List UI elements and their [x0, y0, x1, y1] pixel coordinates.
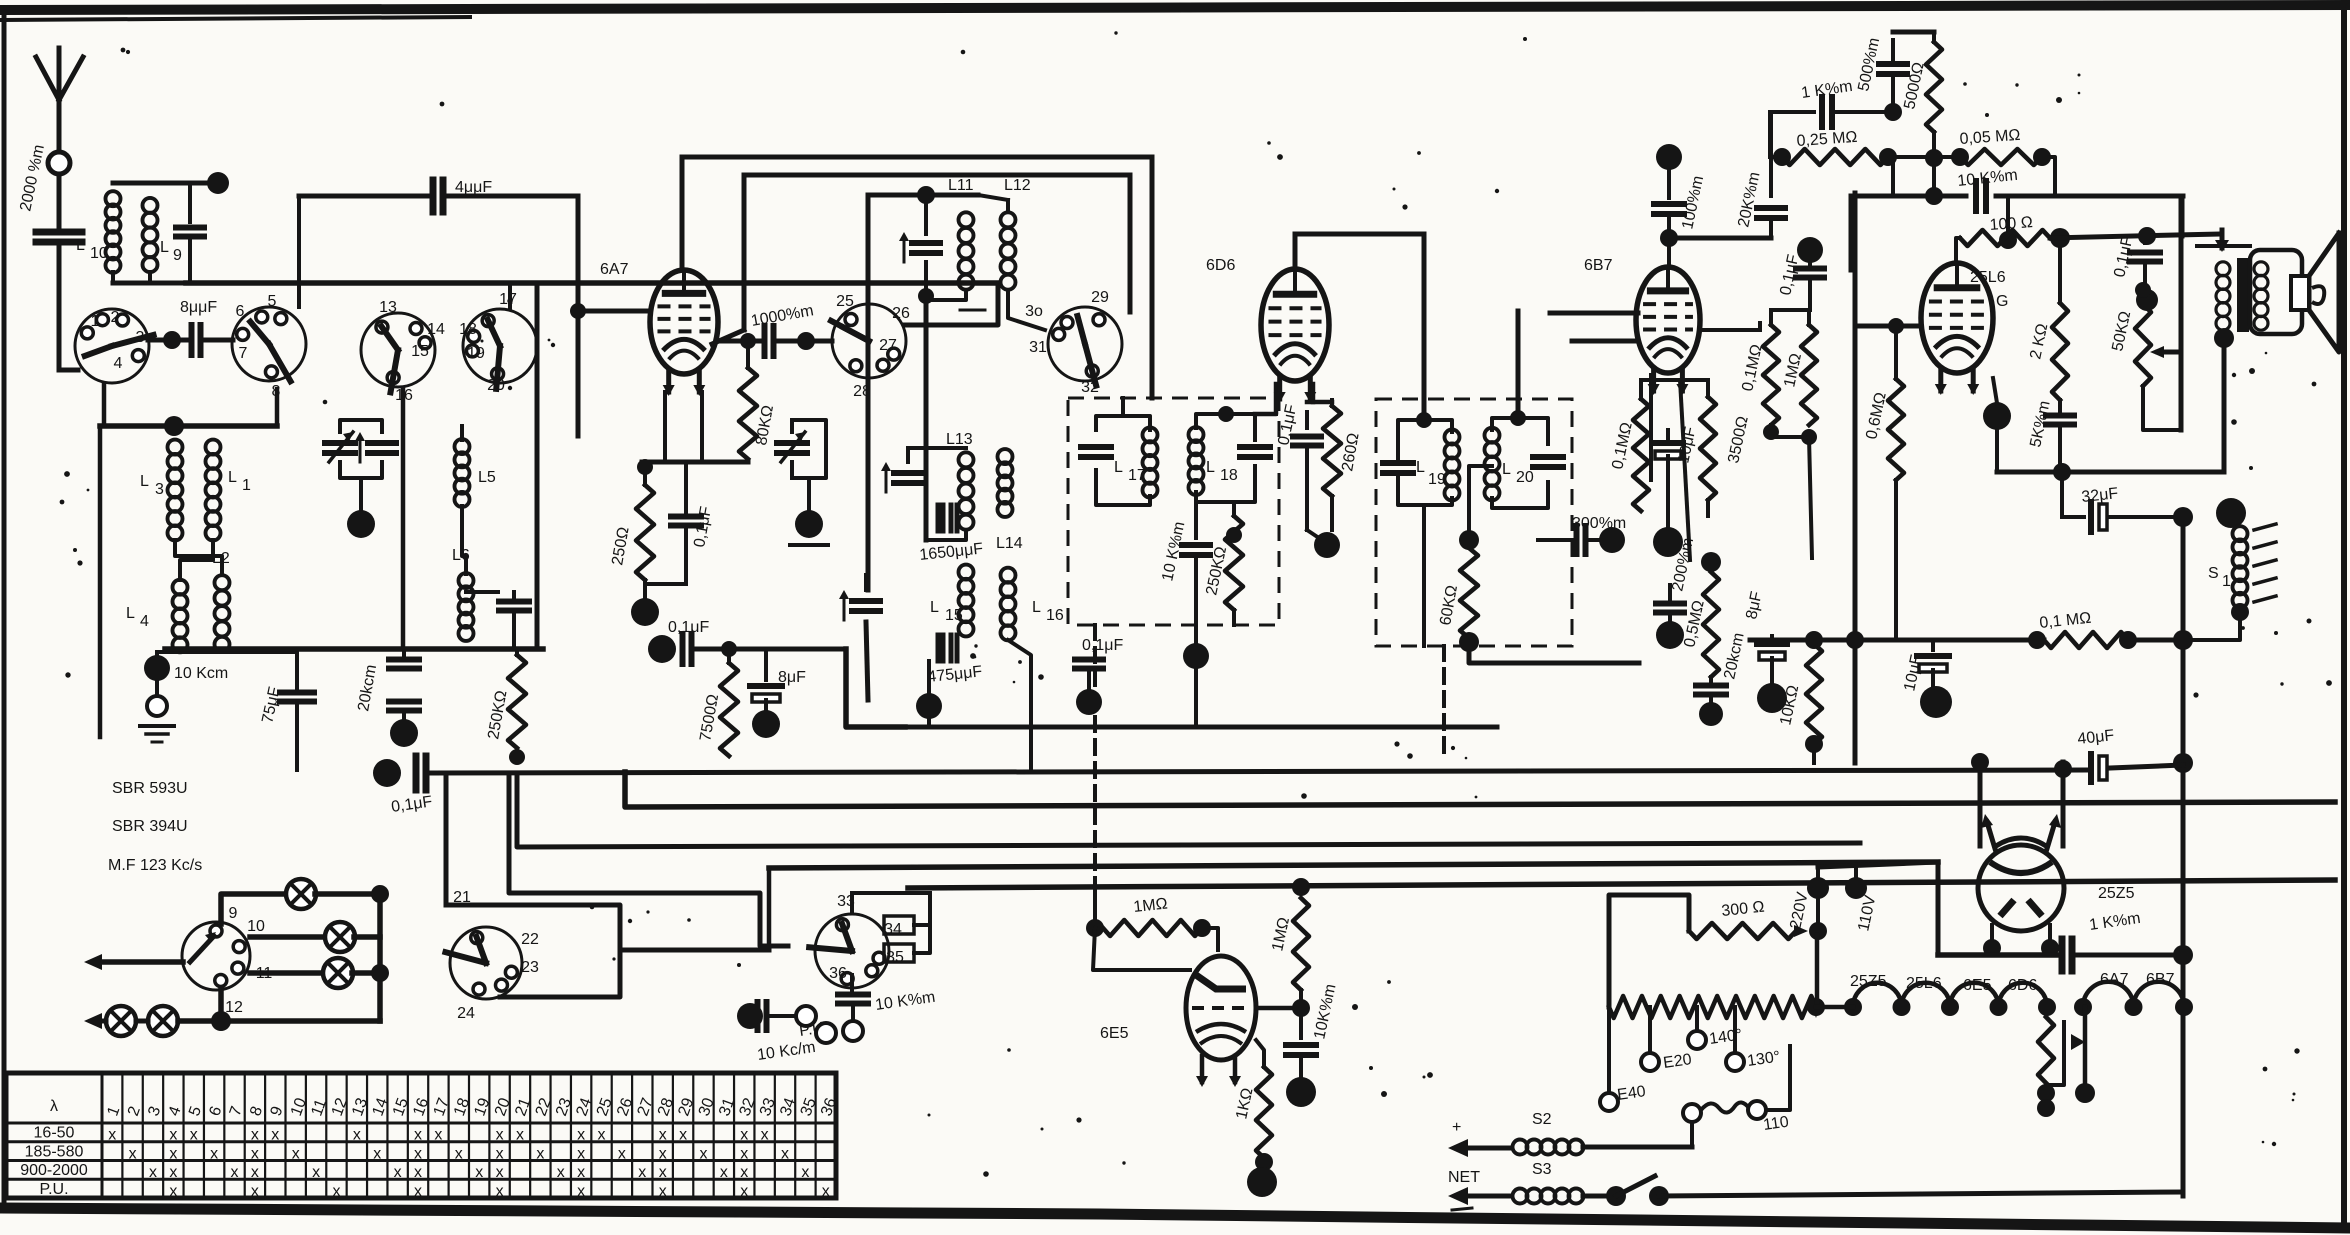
svg-text:L: L [126, 605, 135, 622]
label 1000cm [750, 302, 815, 330]
svg-text:x: x [353, 1127, 361, 1144]
wire cathode bottom [645, 580, 686, 598]
wire 6B7 right grid [1700, 323, 1760, 330]
svg-text:20: 20 [1516, 469, 1534, 486]
tank L17 loop [1096, 416, 1150, 505]
svg-text:x: x [312, 1164, 320, 1181]
label 250K left [485, 689, 510, 741]
svg-text:25Z5: 25Z5 [2098, 885, 2135, 902]
title MF 123 [108, 857, 202, 874]
wire L3-L4 link [175, 540, 222, 575]
label heater 6E5 [1963, 977, 1992, 994]
capacitor 01uF cathode [671, 462, 701, 584]
label 300ohm [1721, 899, 1766, 920]
resistor 5000 [1925, 32, 1943, 205]
label 32uF [2081, 485, 2120, 506]
terminal 10Kcm dot [144, 652, 170, 694]
wire y640 feed [1750, 638, 2044, 643]
capacitor 10uF [1653, 430, 1683, 528]
svg-text:0,1μF: 0,1μF [1082, 637, 1123, 654]
svg-text:x: x [577, 1183, 585, 1200]
capacitor 01uF 6B7 [1796, 237, 1824, 310]
wire L11 top [868, 186, 978, 204]
wire 6D6 pin left [1274, 395, 1278, 414]
label 025M [1796, 129, 1858, 150]
wire L17 top stub [1121, 398, 1125, 416]
wire speaker top [2215, 230, 2229, 252]
lamp 5 [148, 1006, 178, 1036]
label 7500 [697, 693, 722, 743]
coil L19 [1445, 430, 1460, 501]
label 475uuF [927, 663, 984, 686]
capacitor 20kcm lower [389, 702, 419, 723]
wire 1M to grid [1202, 928, 1218, 950]
wire 6A7 pins down [665, 392, 702, 462]
svg-text:x: x [251, 1183, 259, 1200]
tube 6D6 [1261, 269, 1329, 403]
wire dial arrow [84, 954, 183, 970]
label 10Kcm wafer [874, 989, 936, 1014]
coil L12 [1001, 212, 1016, 289]
wire bus1 end [2110, 765, 2183, 768]
svg-text:M.F 123 Kc/s: M.F 123 Kc/s [108, 857, 202, 874]
wire L1-L2 link [180, 540, 213, 580]
svg-text:26: 26 [892, 305, 910, 322]
wire wafer1 to cap [148, 331, 186, 349]
resistor 50K pot [2135, 282, 2151, 386]
resistor 7500 [720, 649, 738, 756]
label 10Kcm PU [756, 1039, 816, 1064]
wire drop x578 [570, 196, 586, 436]
svg-text:x: x [169, 1164, 177, 1181]
coil L3 [140, 440, 183, 541]
pin box 35 [884, 944, 914, 962]
lamp 2 [325, 922, 355, 952]
resistor 3500 [1700, 380, 1716, 516]
svg-text:x: x [822, 1183, 830, 1200]
wire 25L6 grid left [1855, 318, 1921, 334]
coil L15 [959, 565, 974, 637]
svg-text:x: x [577, 1145, 585, 1162]
coil S1 [2233, 524, 2277, 608]
wire L12 bottom [1008, 290, 1045, 330]
resistor 01M mid [2028, 630, 2193, 650]
resistor 260ohm [1307, 384, 1341, 530]
svg-text:x: x [129, 1145, 137, 1162]
svg-text:G: G [1996, 293, 2008, 310]
tube 6B7 [1636, 267, 1700, 395]
tap E40 [1600, 1007, 1647, 1111]
svg-text:32: 32 [1081, 379, 1099, 396]
heater chain group2 [2074, 982, 2193, 1016]
wire 6B7 res top [1771, 308, 1809, 312]
capacitor 5Kcm [2046, 400, 2074, 472]
wire lamp row1b [315, 891, 380, 897]
dashed drop x1444 [1442, 646, 1446, 758]
label heater 25L6 [1906, 975, 1942, 992]
svg-text:x: x [251, 1164, 259, 1181]
svg-text:1: 1 [91, 313, 100, 330]
wire 6E5 target [1256, 999, 1310, 1017]
switch wafer 33-36 [809, 893, 904, 988]
svg-text:P.U.: P.U. [39, 1181, 68, 1198]
svg-text:27: 27 [879, 337, 897, 354]
resistor 05M [1701, 552, 1721, 677]
wire left drop to L4 [98, 426, 103, 737]
label 01uF 6B7 [1777, 253, 1802, 297]
tube 25L6 [1921, 263, 1993, 395]
svg-text:L: L [1114, 459, 1123, 476]
svg-text:x: x [577, 1164, 585, 1181]
svg-text:x: x [169, 1127, 177, 1144]
coil L6 [452, 547, 474, 641]
wire left drop x868 [866, 195, 871, 304]
wire L10 bottom [113, 272, 186, 283]
svg-text:3o: 3o [1025, 303, 1043, 320]
wire top line y175 [744, 173, 1130, 178]
label L15 [930, 599, 963, 624]
wire y472 [1997, 416, 2224, 481]
label 2000c antenna [17, 143, 48, 213]
capacitor 10Kcm right [1976, 181, 1986, 211]
terminal dot 260 [1314, 532, 1340, 558]
svg-text:3: 3 [155, 481, 164, 498]
label 260ohm [1339, 432, 1362, 473]
terminal dot L16cap [1076, 689, 1102, 715]
svg-text:x: x [496, 1183, 504, 1200]
resistor 1K 6E5 [1255, 1040, 1273, 1171]
label 10uF right [1901, 653, 1925, 693]
arrow net [1448, 1187, 1510, 1210]
dashed drop x1095 [1093, 625, 1097, 895]
wire 005M right drop [2042, 157, 2055, 196]
wire 6A7 plate right [716, 339, 760, 344]
wire y955 [1938, 952, 2057, 958]
wire box bottom y727 [905, 725, 1497, 730]
svg-text:x: x [271, 1127, 279, 1144]
svg-text:x: x [659, 1127, 667, 1144]
svg-text:L12: L12 [1004, 177, 1031, 194]
wire lamp row2 [250, 934, 326, 940]
svg-text:x: x [414, 1183, 422, 1200]
svg-text:6E5: 6E5 [1963, 977, 1992, 994]
svg-text:24: 24 [457, 1005, 475, 1022]
terminal dot cathode [631, 598, 659, 626]
coil L20 [1485, 428, 1500, 501]
svg-text:x: x [577, 1127, 585, 1144]
tap 220V [1787, 867, 1829, 931]
svg-text:4: 4 [140, 613, 149, 630]
svg-text:10: 10 [247, 918, 265, 935]
label 60K [1437, 584, 1461, 627]
label 05M [1681, 599, 1708, 649]
label L19 [1416, 459, 1446, 488]
wire lamp bottom [136, 990, 380, 1031]
wire lamp arrow2 [84, 1013, 106, 1029]
wire 220V down [1816, 888, 1820, 931]
switch wafer 13-16 [361, 299, 445, 645]
switch mains [1606, 1176, 1669, 1206]
open circle wafer36 [843, 1021, 863, 1041]
svg-text:x: x [414, 1145, 422, 1162]
label PU [798, 1020, 825, 1040]
open circle ground [147, 696, 167, 716]
border frame top [0, 5, 2350, 20]
capacitor 10Kcm IF1 [1182, 502, 1210, 655]
label 100cm [1679, 174, 1707, 231]
svg-text:x: x [516, 1127, 524, 1144]
wire top line y157 [682, 155, 1152, 160]
terminal dot IF1 [1183, 643, 1209, 669]
tap 140 [1688, 1007, 1743, 1049]
svg-text:110: 110 [1762, 1114, 1790, 1134]
terminal dot A [207, 172, 229, 194]
wire lamp right bar [371, 885, 389, 1021]
wire x2183 [2180, 196, 2185, 236]
wire wafer2 stem up [297, 283, 301, 307]
label L17 [1114, 459, 1146, 484]
wire x1855 drop [1846, 193, 1864, 763]
svg-text:x: x [414, 1127, 422, 1144]
svg-text:6E5: 6E5 [1100, 1025, 1129, 1042]
wire L11 bottom [930, 290, 985, 310]
svg-text:10 Kcm: 10 Kcm [174, 665, 228, 682]
wire drop x1130 [1128, 175, 1133, 312]
terminal dot 8uF low [1757, 683, 1787, 713]
svg-text:18: 18 [459, 321, 477, 338]
wire x1938 [1936, 862, 1941, 955]
wire 4uuF line [299, 194, 429, 199]
svg-text:19: 19 [467, 345, 485, 362]
label 01uF bus [390, 793, 433, 816]
speaker frame [2250, 250, 2302, 334]
svg-text:6A7: 6A7 [600, 261, 629, 278]
wire L12 top [978, 195, 1008, 212]
svg-text:L: L [1416, 459, 1425, 476]
svg-text:2: 2 [111, 309, 120, 326]
wire lamp row2b [354, 934, 380, 940]
svg-text:25: 25 [836, 293, 854, 310]
wire lamp row3 [250, 970, 324, 976]
capacitor 8uF low [1757, 636, 1787, 684]
label 25Z5 [2098, 885, 2135, 902]
capacitor antenna series [36, 232, 82, 370]
capacitor 1Kcm 25Z5 [2062, 939, 2183, 971]
svg-text:x: x [332, 1183, 340, 1200]
svg-text:16: 16 [1046, 607, 1064, 624]
capacitor 01uF snub [2130, 237, 2160, 290]
wire tap110 right [1766, 1046, 1790, 1110]
pot bracket [2143, 196, 2181, 430]
coil L9 [143, 198, 183, 272]
terminal dot 300cm [1599, 527, 1625, 553]
resistor 01M left [1633, 380, 1649, 511]
resistor 1M 6E5 h [1086, 919, 1211, 937]
svg-text:x: x [414, 1164, 422, 1181]
resistor 250K left [508, 649, 526, 765]
tube 6E5 [1186, 956, 1256, 1087]
coil L2 [212, 550, 230, 652]
label 3500 [1725, 415, 1752, 465]
svg-text:6B7: 6B7 [2146, 971, 2175, 988]
svg-text:x: x [740, 1127, 748, 1144]
svg-text:x: x [210, 1145, 218, 1162]
resistor 250K IF1 [1225, 502, 1243, 625]
dashed box IF2 [1376, 399, 1572, 646]
svg-text:x: x [169, 1183, 177, 1200]
open circle PU1 [796, 1006, 816, 1026]
label NET [1448, 1169, 1480, 1186]
svg-text:185-580: 185-580 [25, 1143, 84, 1160]
capacitor 32uF [2062, 472, 2193, 532]
svg-text:x: x [496, 1145, 504, 1162]
svg-text:x: x [496, 1164, 504, 1181]
wire x2008 drop [1999, 196, 2017, 249]
wire L19 bottom drop [1422, 505, 1426, 646]
wiper 50K [2150, 346, 2181, 358]
wire top of L10 L9 [113, 181, 218, 186]
label L16 [1032, 599, 1064, 624]
wire 6B7 left pins [1550, 313, 1638, 341]
svg-text:x: x [455, 1145, 463, 1162]
capacitor 1650uuF [930, 505, 957, 531]
wire pin36 down [850, 975, 854, 990]
resistor 1M 6E5 v [1292, 878, 1310, 1038]
svg-text:1MΩ: 1MΩ [1133, 895, 1169, 915]
svg-text:L14: L14 [996, 535, 1023, 552]
label L20 [1502, 461, 1534, 486]
label 10Kcm IF1 [1159, 520, 1188, 583]
capacitor 200cm [1656, 585, 1684, 622]
terminal dot 200cm [1656, 621, 1684, 649]
lamp 4 [106, 1006, 136, 1036]
coil L10 [76, 191, 121, 273]
svg-text:NET: NET [1448, 1169, 1480, 1186]
svg-text:x: x [659, 1164, 667, 1181]
svg-text:x: x [108, 1127, 116, 1144]
wire junction y462 [642, 460, 748, 465]
label L11 [948, 177, 974, 194]
svg-text:x: x [598, 1127, 606, 1144]
svg-text:x: x [251, 1145, 259, 1162]
label 20kcm [355, 663, 380, 712]
arrow plus [1448, 1119, 1510, 1157]
svg-text:3: 3 [136, 329, 145, 346]
svg-text:7: 7 [239, 345, 248, 362]
border frame right [2341, 4, 2347, 1229]
svg-text:9: 9 [173, 247, 182, 264]
coil L18 [1189, 427, 1204, 495]
label 005M [1959, 127, 2021, 148]
svg-text:L: L [76, 237, 85, 254]
wire 500cm top [1893, 30, 1934, 35]
wire 6B7 res bottom [1763, 424, 1817, 558]
capacitor 40uF [2054, 727, 2115, 782]
coil L11 [959, 212, 974, 289]
resistor 005M [1951, 148, 2051, 166]
svg-text:x: x [659, 1183, 667, 1200]
wire heater x2085 drop [2071, 1007, 2095, 1103]
wire 299 drop [297, 196, 301, 283]
capacitor 20kcm upper [389, 649, 419, 669]
heater chain group1 [1844, 983, 2056, 1016]
capacitor 8uuF [192, 325, 234, 355]
wire 60K bottom [1469, 642, 1639, 663]
dashed box IF1 [1068, 398, 1279, 625]
label 1Kcm top [1800, 78, 1853, 102]
svg-text:6A7: 6A7 [2100, 971, 2129, 988]
wire wafer21 loop [446, 905, 620, 997]
label 6A7 [600, 261, 629, 278]
svg-text:x: x [740, 1164, 748, 1181]
wire lamp row1 [221, 894, 287, 924]
terminal dot 10uF [1653, 527, 1683, 557]
pin box 34 [884, 916, 914, 934]
wire L20 mid tap [1469, 466, 1492, 530]
tap 130 [1726, 1007, 1781, 1071]
speaker transformer [2216, 258, 2268, 332]
svg-text:x: x [679, 1127, 687, 1144]
resistor 025M [1770, 112, 1897, 166]
coil L13 [959, 452, 974, 529]
wire 300ohm left [1609, 895, 1689, 1007]
svg-text:23: 23 [521, 959, 539, 976]
label 6D6 [1206, 257, 1235, 274]
tap 110V [1845, 866, 1880, 933]
label 300cm [1572, 515, 1626, 532]
svg-text:S2: S2 [1532, 1111, 1552, 1128]
terminal dot 8uF [752, 710, 780, 738]
svg-text:x: x [557, 1164, 565, 1181]
wire drop x744 [712, 175, 744, 344]
open circle PU2 [816, 1023, 836, 1043]
capacitor L15 tank [839, 575, 880, 620]
wire 6A7 left grid [578, 309, 650, 314]
terminal dot L20tap [1459, 530, 1479, 550]
capacitor L17 [1081, 447, 1111, 457]
tube 6A7 [650, 270, 718, 396]
wire y867 taps [1818, 862, 1938, 867]
tube 25Z5 [1978, 814, 2064, 931]
capacitor 75uF [280, 693, 314, 771]
wire x926 col [924, 296, 929, 540]
svg-text:1: 1 [242, 477, 251, 494]
resistor mains tapped [1609, 996, 1816, 1018]
coil L1 [206, 440, 252, 541]
label L12 [1004, 177, 1031, 194]
wire heater left [1816, 1005, 1853, 1010]
wire drop x1518 [1516, 311, 1521, 418]
svg-text:x: x [659, 1145, 667, 1162]
svg-text:L: L [160, 239, 169, 256]
wire cluster top [1641, 378, 1708, 382]
svg-text:1: 1 [2222, 573, 2231, 590]
terminal dot L15 [916, 661, 942, 727]
terminal dot snub [2136, 289, 2158, 311]
svg-text:x: x [190, 1127, 198, 1144]
svg-text:L6: L6 [452, 547, 470, 564]
resistor 1M 6B7 [1781, 310, 1817, 425]
wire bus1 [430, 770, 2087, 773]
wire 025M to 5000 [1888, 155, 1960, 159]
label 250ohm [609, 526, 632, 567]
switch wafer 21-24 [445, 889, 539, 1022]
resistor 10K low [1805, 631, 1823, 763]
wire x2183 span [2173, 517, 2193, 1196]
svg-text:x: x [536, 1145, 544, 1162]
border frame bottom [0, 1208, 2350, 1228]
switch wafer 1-4 [75, 309, 154, 383]
